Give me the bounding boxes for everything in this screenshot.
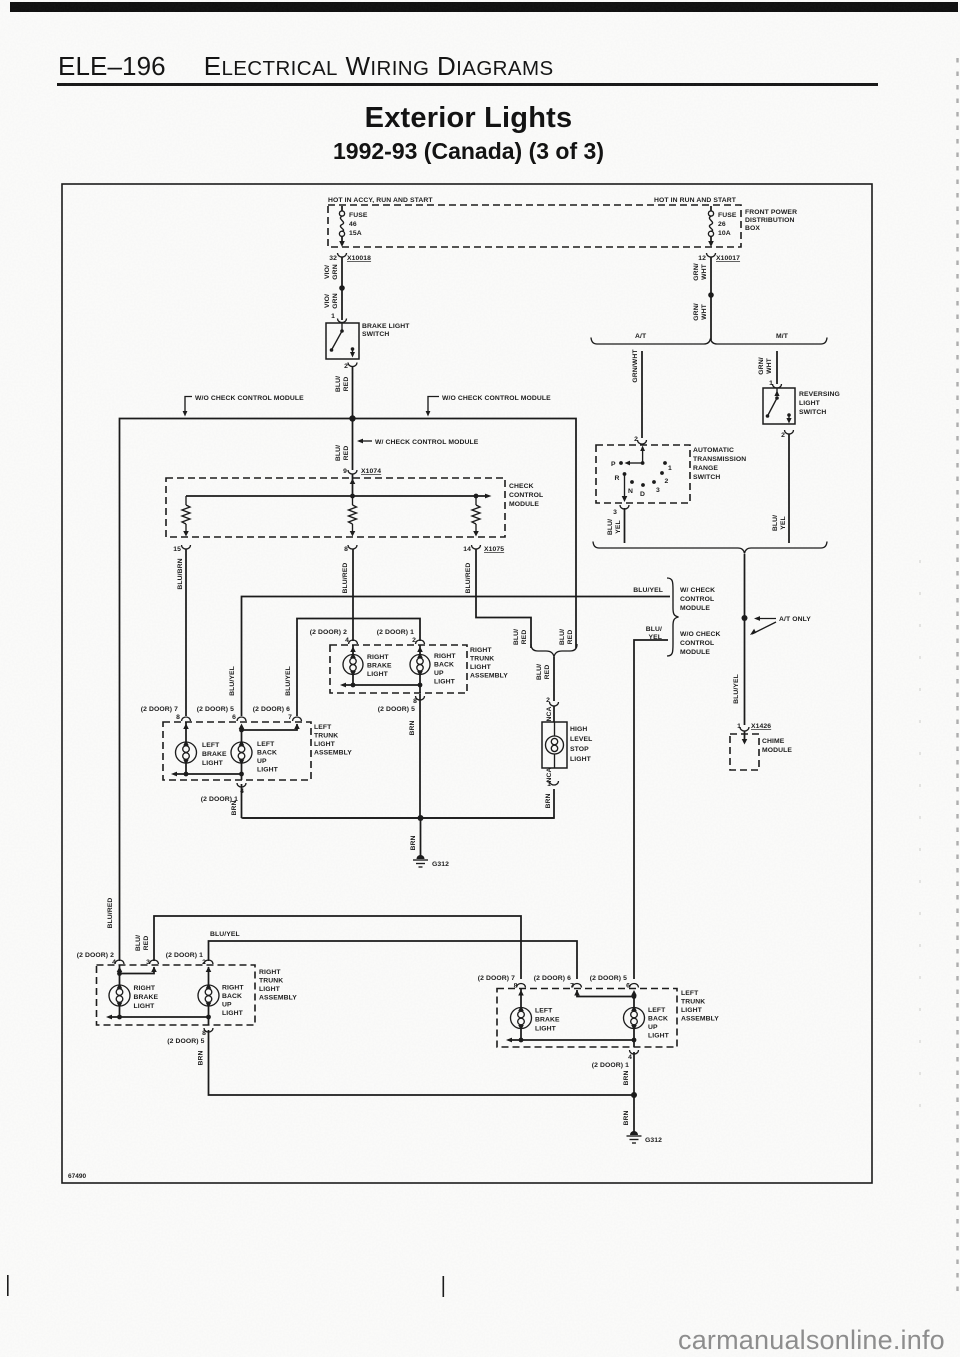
svg-text:LIGHT: LIGHT [259, 986, 281, 993]
wire BRN to G312 [420, 818, 422, 857]
svg-text:LIGHT: LIGHT [470, 664, 492, 671]
svg-text:VIO/: VIO/ [324, 265, 331, 279]
registration tick left [7, 1275, 9, 1296]
svg-text:BRAKE LIGHT: BRAKE LIGHT [362, 323, 410, 330]
svg-text:UP: UP [222, 1002, 232, 1009]
right brake light bulb [343, 645, 392, 685]
svg-text:MODULE: MODULE [509, 501, 539, 508]
svg-text:ASSEMBLY: ASSEMBLY [470, 673, 508, 680]
svg-text:LEFT: LEFT [314, 724, 332, 731]
bracket: stop light feed merge [531, 644, 577, 657]
svg-text:1: 1 [331, 313, 335, 320]
right brake light bulb (2-door) [109, 965, 159, 1017]
svg-text:(2 DOOR) 2: (2 DOOR) 2 [310, 629, 347, 636]
svg-text:LIGHT: LIGHT [648, 1033, 670, 1040]
svg-text:LEFT: LEFT [535, 1008, 553, 1015]
svg-text:TRUNK: TRUNK [681, 999, 705, 1006]
svg-text:LEFT: LEFT [681, 990, 699, 997]
svg-text:BACK: BACK [222, 993, 242, 1000]
wire jog pin7 to back up bulb (2-door) [577, 990, 634, 997]
svg-text:BLU/: BLU/ [772, 515, 779, 531]
svg-text:LIGHT: LIGHT [681, 1007, 703, 1014]
svg-text:GRN/: GRN/ [693, 303, 700, 320]
svg-text:GRN/WHT: GRN/WHT [632, 349, 639, 383]
wire BLU/YEL from reversing switch to brace [788, 434, 790, 543]
svg-text:BRN: BRN [623, 1110, 630, 1125]
svg-text:WHT: WHT [701, 303, 708, 320]
svg-text:BRN: BRN [623, 1070, 630, 1085]
svg-text:G312: G312 [645, 1137, 662, 1144]
svg-text:W/ CHECK CONTROL MODULE: W/ CHECK CONTROL MODULE [375, 439, 479, 446]
svg-text:26: 26 [718, 221, 726, 228]
left brake light bulb (2-door) [511, 988, 561, 1040]
svg-text:BACK: BACK [648, 1016, 668, 1023]
svg-text:BLU/: BLU/ [513, 629, 520, 645]
svg-text:3: 3 [656, 487, 660, 494]
svg-text:TRANSMISSION: TRANSMISSION [693, 456, 746, 463]
svg-text:LIGHT: LIGHT [202, 760, 224, 767]
brake light switch [326, 323, 410, 359]
svg-text:BLU/: BLU/ [335, 376, 342, 392]
wire GRN/WHT M/T branch [776, 351, 778, 384]
svg-text:3: 3 [613, 509, 617, 516]
front power distribution box (dashed) [328, 205, 741, 247]
svg-text:RED: RED [143, 936, 150, 951]
wire BLU/RED from switch to junction [352, 366, 354, 418]
svg-text:HOT IN ACCY, RUN AND START: HOT IN ACCY, RUN AND START [328, 197, 433, 204]
node: ground bus junction [418, 815, 424, 821]
svg-text:BRAKE: BRAKE [134, 994, 159, 1001]
wire BLU/YEL w/ check crossover [242, 597, 671, 717]
svg-text:BLU/: BLU/ [536, 664, 543, 680]
svg-text:P: P [611, 461, 616, 468]
internal ground bus right assembly [343, 684, 420, 686]
svg-text:RED: RED [567, 630, 574, 645]
svg-text:LIGHT: LIGHT [367, 671, 389, 678]
svg-text:X1075: X1075 [484, 546, 504, 553]
exit pin 8 (2 DOOR 5) [204, 1028, 213, 1032]
automatic transmission range switch (dashed) [596, 445, 746, 503]
svg-text:WHT: WHT [701, 263, 708, 280]
internal ground bus left assembly [174, 773, 242, 775]
svg-text:YEL: YEL [780, 516, 787, 530]
wire VIO/GRN from X10018 to brake light switch [341, 257, 343, 320]
svg-text:BLU/YEL: BLU/YEL [229, 666, 236, 696]
connector X10017 pin 12 [698, 253, 740, 262]
node: splice dot on VIO/GRN [339, 285, 345, 291]
svg-text:BOX: BOX [745, 225, 760, 232]
svg-text:BRN: BRN [198, 1050, 205, 1065]
wire BRN from stop light to ground bus [243, 789, 554, 818]
svg-text:FUSE: FUSE [718, 212, 737, 219]
svg-text:D: D [640, 491, 645, 498]
node: 2-door ground bus junction [631, 1092, 637, 1098]
svg-text:15: 15 [173, 546, 181, 553]
svg-text:NCA: NCA [546, 706, 553, 721]
right back up light bulb (2-door) [198, 967, 244, 1025]
svg-text:LIGHT: LIGHT [134, 1003, 156, 1010]
svg-text:W/O CHECK CONTROL MODULE: W/O CHECK CONTROL MODULE [442, 395, 551, 402]
svg-text:TRUNK: TRUNK [470, 656, 494, 663]
svg-text:8: 8 [202, 1030, 206, 1037]
svg-text:(2 DOOR) 5: (2 DOOR) 5 [378, 706, 415, 713]
svg-text:BLU/: BLU/ [559, 629, 566, 645]
svg-text:(2 DOOR) 5: (2 DOOR) 5 [590, 975, 627, 982]
svg-text:2: 2 [665, 478, 669, 485]
svg-text:YEL: YEL [615, 520, 622, 534]
internal ground bus 2-door right assembly [109, 1016, 209, 1018]
svg-text:W/O CHECK: W/O CHECK [680, 631, 721, 638]
svg-text:1: 1 [668, 465, 672, 472]
svg-text:BLU/YEL: BLU/YEL [285, 666, 292, 696]
svg-text:RED: RED [343, 446, 350, 461]
fuse F26 10A [708, 206, 737, 247]
ground G312 (upper) [413, 855, 449, 868]
svg-text:YEL: YEL [648, 634, 662, 641]
resistor (left, to pin 15) [185, 496, 187, 505]
svg-text:X1426: X1426 [751, 723, 771, 730]
svg-text:A/T: A/T [635, 333, 647, 340]
svg-text:8: 8 [176, 714, 180, 721]
svg-text:STOP: STOP [570, 746, 589, 753]
wire BRN 2-door right assembly to ground bus [209, 1030, 635, 1095]
right trunk light assembly 2-door (dashed) [97, 965, 298, 1025]
wire BLU/YEL w/o check to left back up light (2-door) [634, 640, 668, 979]
scan artifact column right [956, 58, 958, 1300]
svg-text:RIGHT: RIGHT [367, 654, 389, 661]
right back up light bulb [410, 645, 456, 693]
svg-text:HOT IN RUN AND START: HOT IN RUN AND START [654, 197, 737, 204]
svg-text:(2 DOOR) 5: (2 DOOR) 5 [167, 1038, 204, 1045]
svg-text:BRN: BRN [410, 835, 417, 850]
svg-text:12: 12 [698, 255, 706, 262]
svg-text:LEFT: LEFT [648, 1007, 666, 1014]
svg-text:RIGHT: RIGHT [222, 985, 244, 992]
svg-text:BLU/: BLU/ [607, 519, 614, 535]
svg-text:HIGH: HIGH [570, 726, 587, 733]
svg-text:BRN: BRN [409, 720, 416, 735]
svg-text:LEFT: LEFT [257, 741, 275, 748]
left trunk light assembly (dashed) [163, 722, 352, 780]
svg-text:8: 8 [344, 546, 348, 553]
svg-text:14: 14 [463, 546, 471, 553]
wire BLU/YEL from range switch to brace [624, 508, 626, 543]
wire BLU/RED junction to X1074 [352, 418, 354, 470]
svg-text:SWITCH: SWITCH [693, 474, 720, 481]
reversing light switch [763, 388, 840, 424]
wire BLU/RED to high level stop light [553, 657, 555, 701]
svg-text:10A: 10A [718, 230, 731, 237]
wire BLU/YEL backup crossover [297, 619, 420, 717]
svg-text:VIO/: VIO/ [324, 294, 331, 308]
svg-text:SWITCH: SWITCH [799, 409, 826, 416]
node: dot at middle resistor tap [350, 494, 355, 499]
svg-text:BACK: BACK [434, 662, 454, 669]
svg-text:BLU/: BLU/ [646, 626, 662, 633]
svg-text:CONTROL: CONTROL [680, 640, 714, 647]
svg-text:BRAKE: BRAKE [202, 751, 227, 758]
label W/ CHECK CONTROL MODULE with arrow [357, 439, 479, 446]
brace: A/T - M/T split [591, 338, 827, 345]
left trunk light assembly 2-door (dashed) [497, 989, 719, 1048]
svg-text:15A: 15A [349, 230, 362, 237]
svg-text:BLU/YEL: BLU/YEL [633, 587, 663, 594]
ground G312 (lower) [627, 1131, 663, 1144]
high level stop light [542, 722, 592, 768]
svg-text:BLU/RED: BLU/RED [465, 563, 472, 594]
node: A/T only junction [742, 615, 748, 621]
svg-text:BLU/BRN: BLU/BRN [177, 558, 184, 589]
wire jog pin7 to back up bulb [242, 724, 298, 730]
svg-text:GRN: GRN [332, 293, 339, 308]
svg-text:LIGHT: LIGHT [535, 1026, 557, 1033]
svg-text:MODULE: MODULE [680, 605, 710, 612]
svg-text:BLU/YEL: BLU/YEL [210, 931, 240, 938]
svg-text:BLU/: BLU/ [135, 935, 142, 951]
svg-text:UP: UP [257, 758, 267, 765]
svg-text:BRN: BRN [545, 793, 552, 808]
left back up light bulb [231, 730, 279, 780]
svg-text:46: 46 [349, 221, 357, 228]
svg-text:BRAKE: BRAKE [367, 663, 392, 670]
range switch contacts P R N D 3 2 1 [611, 446, 672, 503]
svg-text:(2 DOOR) 5: (2 DOOR) 5 [197, 706, 234, 713]
check module internal distribution line [186, 495, 486, 497]
svg-text:BLU/RED: BLU/RED [107, 898, 114, 929]
svg-text:RIGHT: RIGHT [259, 969, 281, 976]
svg-text:6: 6 [232, 714, 236, 721]
svg-text:BRN: BRN [231, 800, 238, 815]
svg-text:2: 2 [344, 363, 348, 370]
wire GRN/WHT A/T branch [641, 351, 643, 438]
svg-text:CHECK: CHECK [509, 483, 534, 490]
svg-text:ASSEMBLY: ASSEMBLY [681, 1016, 719, 1023]
resistor (right, to pin 14) [475, 496, 477, 505]
chime module (dashed) [730, 731, 792, 770]
svg-text:X10018: X10018 [347, 255, 371, 262]
check control module (dashed) [166, 478, 543, 537]
svg-text:4: 4 [628, 1054, 632, 1061]
check module entry arrow pin 9 [352, 474, 354, 496]
svg-text:BACK: BACK [257, 750, 277, 757]
svg-text:(2 DOOR) 1: (2 DOOR) 1 [377, 629, 414, 636]
svg-text:REVERSING: REVERSING [799, 391, 840, 398]
svg-text:GRN/: GRN/ [758, 357, 765, 374]
resistor (middle, to pin 8) [352, 496, 354, 505]
svg-text:MODULE: MODULE [762, 747, 792, 754]
node: splice dot on GRN/WHT [708, 292, 714, 298]
range switch pin 3 [620, 505, 629, 509]
registration tick centre [443, 1276, 445, 1297]
svg-text:LIGHT: LIGHT [434, 679, 456, 686]
svg-text:RANGE: RANGE [693, 465, 718, 472]
svg-text:9: 9 [343, 468, 347, 475]
svg-text:ASSEMBLY: ASSEMBLY [314, 750, 352, 757]
connector X10018 pin 32 [329, 253, 371, 262]
svg-text:X10017: X10017 [716, 255, 740, 262]
ground bus wire BRN [242, 817, 555, 819]
wire BLU/YEL to chime module [744, 618, 746, 725]
svg-text:WHT: WHT [766, 357, 773, 374]
svg-text:LIGHT: LIGHT [257, 767, 279, 774]
svg-text:LIGHT: LIGHT [799, 400, 821, 407]
svg-text:G312: G312 [432, 861, 449, 868]
svg-text:BRAKE: BRAKE [535, 1017, 560, 1024]
svg-text:UP: UP [434, 670, 444, 677]
svg-text:ASSEMBLY: ASSEMBLY [259, 995, 297, 1002]
wire BLU/RED pin 8 to right brake light [352, 549, 354, 641]
svg-text:32: 32 [329, 255, 337, 262]
svg-text:AUTOMATIC: AUTOMATIC [693, 447, 734, 454]
svg-text:(2 DOOR) 6: (2 DOOR) 6 [253, 706, 290, 713]
wire BLU/RED crossover to left brake (2-door) [154, 916, 521, 979]
svg-text:(2 DOOR) 2: (2 DOOR) 2 [77, 952, 114, 959]
wire jog pin3 to brake bulb [120, 967, 155, 974]
svg-text:RED: RED [544, 665, 551, 680]
svg-text:TRUNK: TRUNK [314, 733, 338, 740]
svg-text:W/ CHECK: W/ CHECK [680, 587, 715, 594]
svg-text:RED: RED [521, 630, 528, 645]
node: dot at right resistor tap [474, 494, 479, 499]
svg-text:LIGHT: LIGHT [570, 756, 592, 763]
left brake light bulb [176, 722, 228, 774]
wire BRN left assembly to ground bus [241, 784, 243, 818]
wire BRN 2-door left assembly down [633, 1052, 635, 1133]
label W/O CHECK CONTROL MODULE (left) with pointer [183, 395, 305, 417]
svg-text:M/T: M/T [776, 333, 789, 340]
svg-text:BLU/YEL: BLU/YEL [733, 674, 740, 704]
svg-text:DISTRIBUTION: DISTRIBUTION [745, 217, 795, 224]
exit pin 8 (2 DOOR 5) [416, 696, 425, 700]
svg-text:CONTROL: CONTROL [509, 492, 543, 499]
diagram border frame [62, 184, 872, 1183]
svg-text:67490: 67490 [68, 1173, 86, 1180]
svg-text:TRUNK: TRUNK [259, 978, 283, 985]
svg-text:MODULE: MODULE [680, 649, 710, 656]
svg-text:LEVEL: LEVEL [570, 736, 592, 743]
svg-text:BLU/RED: BLU/RED [342, 563, 349, 594]
label W/O CHECK CONTROL MODULE (right) with pointer [426, 395, 552, 417]
wire BLU/YEL crossover to left back up (2-door) [209, 941, 578, 979]
svg-text:X1074: X1074 [361, 468, 381, 475]
svg-text:(2 DOOR) 7: (2 DOOR) 7 [478, 975, 515, 982]
exit pin 4 (2 DOOR 1) [630, 1050, 639, 1054]
svg-text:LEFT: LEFT [202, 742, 220, 749]
svg-text:(2 DOOR) 1: (2 DOOR) 1 [592, 1062, 629, 1069]
svg-text:RIGHT: RIGHT [434, 653, 456, 660]
svg-text:W/O CHECK CONTROL MODULE: W/O CHECK CONTROL MODULE [195, 395, 304, 402]
svg-text:GRN: GRN [332, 264, 339, 279]
svg-text:FRONT POWER: FRONT POWER [745, 209, 797, 216]
svg-text:(2 DOOR) 1: (2 DOOR) 1 [166, 952, 203, 959]
svg-text:(2 DOOR) 6: (2 DOOR) 6 [534, 975, 571, 982]
left back up light bulb (2-door) [624, 997, 670, 1048]
svg-text:BLU/: BLU/ [335, 445, 342, 461]
svg-text:FUSE: FUSE [349, 212, 368, 219]
wire GRN/WHT from X10017 down [710, 257, 712, 340]
fuse F46 15A [339, 206, 368, 247]
svg-text:RIGHT: RIGHT [134, 985, 156, 992]
svg-text:CHIME: CHIME [762, 738, 785, 745]
label A/T ONLY with pointers [750, 616, 811, 635]
wire: W/O check control module brake line [120, 419, 577, 962]
svg-text:UP: UP [648, 1024, 658, 1031]
svg-text:CONTROL: CONTROL [680, 596, 714, 603]
node: main brake junction [349, 415, 355, 421]
svg-text:SWITCH: SWITCH [362, 331, 389, 338]
internal ground bus 2-door left assembly [509, 1039, 634, 1041]
brace: A/T - M/T merge [593, 542, 827, 554]
exit pin 4 (2 DOOR 1) [237, 783, 246, 787]
svg-text:8: 8 [413, 698, 417, 705]
svg-text:A/T ONLY: A/T ONLY [779, 616, 811, 623]
svg-text:2: 2 [781, 432, 785, 439]
svg-text:RED: RED [343, 377, 350, 392]
wire BLU/BRN pin 15 to left trunk assembly [185, 549, 187, 716]
svg-text:7: 7 [288, 714, 292, 721]
svg-text:LIGHT: LIGHT [314, 741, 336, 748]
right trunk light assembly (dashed) [330, 645, 508, 693]
wire BRN right assembly to ground bus [419, 694, 421, 818]
svg-text:N: N [628, 488, 633, 495]
wire BLU/RED pin 14 to stop light bracket [476, 549, 531, 648]
svg-text:LIGHT: LIGHT [222, 1010, 244, 1017]
wire BLU/YEL below merge [744, 554, 746, 618]
brace: check module options [667, 578, 679, 656]
svg-text:RIGHT: RIGHT [470, 647, 492, 654]
svg-text:R: R [615, 475, 620, 482]
svg-text:GRN/: GRN/ [693, 263, 700, 280]
svg-text:(2 DOOR) 7: (2 DOOR) 7 [141, 706, 178, 713]
